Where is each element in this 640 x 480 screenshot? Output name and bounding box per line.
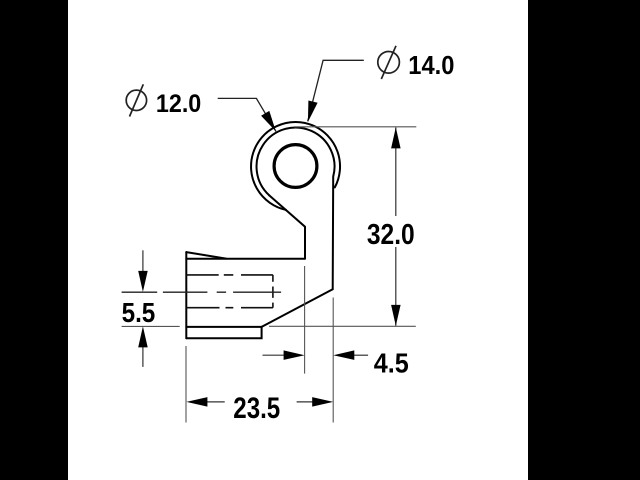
arm top edge: [186, 258, 305, 260]
arm top taper line: [186, 252, 226, 259]
thread hole centerline (dash-dot): [122, 291, 282, 293]
svg-text:5.5: 5.5: [122, 297, 156, 328]
23.5 dimension line right segment: [297, 401, 314, 403]
arm bottom edge: [186, 327, 261, 338]
4.5 right arrowhead: [333, 350, 354, 360]
neck left tangent edge down to plate: [269, 195, 305, 258]
4.5 / 23.5 right extension line: [332, 298, 334, 423]
hinge pin hole: [274, 145, 317, 188]
4.5 left arrowhead: [284, 350, 305, 360]
5.5 lower arrowhead (up): [138, 326, 148, 347]
dia symbol for 12.0: [126, 84, 146, 116]
5.5 bottom extension line: [122, 325, 180, 327]
5.5 upper dimension line: [142, 250, 144, 271]
4.5 left extension line: [304, 266, 306, 374]
left black pillarbox bar: [0, 0, 68, 480]
hidden thread hole end (dashed vertical): [272, 275, 274, 308]
23.5 left extension line: [185, 346, 187, 423]
svg-text:12.0: 12.0: [156, 90, 201, 118]
boss outer arc (dia 14 boss): [251, 122, 340, 210]
arm left edge: [185, 252, 187, 338]
dia 12.0 leader arrowhead: [261, 111, 276, 131]
dia 14.0 leader arrowhead: [308, 101, 318, 123]
23.5 dimension line left segment: [206, 401, 224, 403]
32.0 top extension line: [294, 126, 416, 128]
svg-text:4.5: 4.5: [374, 348, 409, 379]
32.0 dimension line: [395, 128, 397, 326]
23.5 right arrowhead: [312, 397, 333, 407]
hidden thread hole top line (dashed): [186, 274, 273, 276]
bottom chamfer diagonal: [262, 289, 333, 327]
dia symbol for 14.0: [378, 46, 400, 79]
4.5 dimension line left tail: [263, 354, 285, 356]
5.5 lower dimension line: [142, 347, 144, 367]
svg-text:23.5: 23.5: [233, 392, 280, 425]
lug outline (dia 12 ring) and right edge of plate: [257, 128, 335, 290]
32.0 bottom extension line: [269, 325, 416, 327]
right black pillarbox bar: [528, 0, 640, 480]
flange top line: [186, 326, 261, 328]
32.0 top arrowhead: [391, 127, 401, 148]
dia 12.0 leader line: [218, 98, 276, 131]
svg-text:32.0: 32.0: [367, 219, 415, 251]
hidden thread hole bottom line (dashed): [186, 307, 273, 309]
4.5 dimension line right tail: [353, 354, 368, 356]
23.5 left arrowhead: [186, 397, 207, 407]
dia 14.0 leader line: [308, 60, 364, 121]
5.5 upper arrowhead (down): [138, 271, 148, 292]
svg-text:14.0: 14.0: [408, 50, 454, 80]
32.0 bottom arrowhead: [391, 305, 401, 326]
